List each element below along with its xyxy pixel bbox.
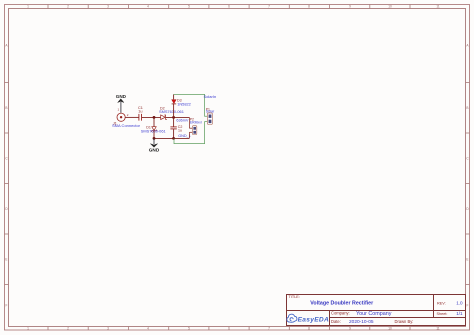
svg-text:E: E — [466, 258, 468, 262]
title block outline — [287, 295, 466, 326]
svg-text:Solar: Solar — [206, 110, 215, 114]
svg-text:Company:: Company: — [331, 311, 350, 316]
wire P2 pin2 to bottom — [189, 131, 192, 133]
svg-text:2020-10-05: 2020-10-05 — [349, 319, 374, 325]
svg-text:Voltage Doubler Rectifier: Voltage Doubler Rectifier — [310, 300, 373, 306]
svg-text:F: F — [6, 304, 8, 308]
svg-text:1: 1 — [118, 108, 120, 112]
svg-text:3: 3 — [107, 327, 109, 331]
svg-text:C: C — [5, 157, 8, 161]
svg-text:1: 1 — [27, 5, 29, 9]
svg-text:A: A — [5, 44, 8, 48]
svg-text:9: 9 — [349, 327, 351, 331]
svg-text:11: 11 — [436, 5, 440, 9]
wire C1 to D2 — [142, 116, 161, 118]
node junction at D1 branch — [153, 116, 156, 119]
connector P1 — [207, 113, 212, 125]
svg-text:SMS7630-061: SMS7630-061 — [141, 129, 166, 134]
connector J1 (SMA) symbol — [117, 113, 125, 121]
svg-text:10: 10 — [388, 327, 392, 331]
svg-text:2: 2 — [67, 327, 69, 331]
svg-text:4: 4 — [147, 327, 149, 331]
frame row ticks left — [5, 83, 9, 285]
node junction bottom C2 — [172, 137, 175, 140]
wire node A to P2 branch — [188, 117, 190, 128]
wire D1 to bottom node — [153, 131, 155, 138]
svg-text:Drawn By:: Drawn By: — [395, 319, 414, 324]
EasyEDA logo cloud — [287, 314, 297, 322]
green wire top — [174, 94, 208, 116]
svg-text:5: 5 — [188, 5, 190, 9]
svg-text:A: A — [466, 44, 469, 48]
wire J1 to C1 — [125, 116, 138, 118]
svg-text:SMS7630-061: SMS7630-061 — [159, 109, 184, 114]
svg-text:Sheet:: Sheet: — [437, 312, 448, 316]
green wire bottom loop — [174, 122, 207, 144]
GND (top) symbol — [118, 99, 124, 103]
connector P2 — [192, 126, 196, 135]
bottom wire node to GND — [154, 137, 189, 139]
svg-text:1u: 1u — [178, 129, 182, 133]
svg-text:D: D — [466, 207, 469, 211]
frame row ticks right — [466, 83, 470, 285]
svg-text:E: E — [5, 258, 7, 262]
svg-text:GND: GND — [149, 148, 160, 153]
wire GND to J1 pin1 — [120, 102, 122, 113]
capacitor C2 — [173, 117, 175, 126]
svg-text:2: 2 — [127, 113, 129, 117]
svg-text:GND_1: GND_1 — [178, 134, 191, 138]
svg-text:C: C — [466, 157, 469, 161]
svg-text:EasyEDA: EasyEDA — [298, 316, 329, 323]
wire node A up to D3 — [173, 104, 175, 117]
svg-text:B: B — [466, 106, 468, 110]
svg-text:1u: 1u — [138, 110, 142, 114]
svg-text:1.0: 1.0 — [456, 301, 463, 306]
svg-text:636mV: 636mV — [176, 118, 188, 122]
svg-text:9: 9 — [349, 5, 351, 9]
svg-text:8: 8 — [308, 327, 310, 331]
svg-text:6: 6 — [228, 5, 230, 9]
svg-text:F: F — [467, 304, 469, 308]
svg-text:1: 1 — [27, 327, 29, 331]
svg-text:4: 4 — [147, 5, 149, 9]
svg-text:D: D — [5, 207, 8, 211]
diode D1 (SMS7630) — [152, 127, 157, 132]
capacitor C1 — [139, 114, 142, 121]
diode D3 (1N5822) — [172, 100, 177, 104]
svg-text:1/1: 1/1 — [456, 311, 463, 316]
svg-text:ERMxxl: ERMxxl — [190, 121, 202, 125]
wire D2 to node A — [166, 116, 190, 118]
svg-text:7: 7 — [268, 327, 270, 331]
svg-text:SolarIn: SolarIn — [204, 94, 217, 99]
svg-text:2: 2 — [67, 5, 69, 9]
frame column ticks bottom — [48, 327, 410, 331]
svg-text:10: 10 — [388, 5, 392, 9]
svg-text:B: B — [5, 106, 7, 110]
wire junction down to D1 — [153, 117, 155, 126]
frame column ticks top — [48, 5, 410, 9]
GND (bottom) symbol — [153, 138, 155, 144]
svg-text:5: 5 — [188, 327, 190, 331]
svg-text:1N5822: 1N5822 — [177, 101, 191, 106]
svg-text:REV:: REV: — [437, 301, 446, 305]
frame row letters — [5, 44, 469, 308]
svg-text:GND: GND — [116, 94, 127, 99]
svg-text:Date:: Date: — [331, 319, 341, 324]
svg-text:3: 3 — [107, 5, 109, 9]
svg-text:Your Company: Your Company — [356, 311, 392, 317]
svg-text:SMA Connector: SMA Connector — [112, 123, 141, 128]
wire D3 anode up — [173, 94, 175, 99]
diode D2 (SMS7630) — [161, 115, 167, 120]
node A junction — [172, 116, 175, 119]
node junction bottom left — [153, 137, 156, 140]
svg-text:8: 8 — [308, 5, 310, 9]
svg-text:TITLE:: TITLE: — [289, 295, 300, 299]
svg-text:7: 7 — [268, 5, 270, 9]
svg-text:11: 11 — [436, 327, 440, 331]
svg-text:6: 6 — [228, 327, 230, 331]
